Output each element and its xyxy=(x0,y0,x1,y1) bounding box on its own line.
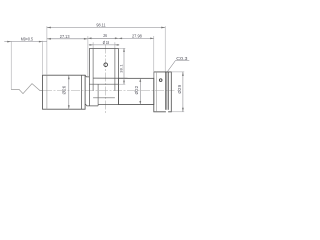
bottom line under block xyxy=(98,104,154,106)
port block screw hole xyxy=(104,63,108,67)
dimension 98.11 xyxy=(46,26,48,75)
dimension 38.1 block height xyxy=(119,47,125,49)
port block bore right xyxy=(114,48,116,90)
dimension 27.13 xyxy=(47,38,88,40)
flange groove line 1 xyxy=(165,72,167,110)
flange groove line 2 xyxy=(167,72,169,110)
port block outer left xyxy=(88,48,90,106)
main barrel body xyxy=(43,75,86,109)
svg-text:26: 26 xyxy=(103,33,107,38)
flange screw hole xyxy=(159,79,162,82)
svg-text:38.1: 38.1 xyxy=(119,64,124,73)
dimension Ø18 xyxy=(89,44,120,46)
flange xyxy=(154,72,172,112)
centerline horizontal xyxy=(43,89,175,91)
dimension 26 xyxy=(88,37,119,39)
svg-text:Ø22: Ø22 xyxy=(134,85,139,94)
port block shoulder line xyxy=(89,83,118,85)
barrel cap line xyxy=(46,75,48,109)
dimension Ø22 right cylinder xyxy=(139,78,141,104)
flange ring line xyxy=(156,72,158,112)
port block bore left xyxy=(92,48,94,90)
svg-text:27.13: 27.13 xyxy=(60,34,70,39)
svg-text:Ø29: Ø29 xyxy=(177,84,182,93)
port block top xyxy=(89,47,118,49)
dimension 27.98 xyxy=(119,37,154,39)
joint line xyxy=(97,84,99,106)
svg-text:27.98: 27.98 xyxy=(132,33,142,38)
leader C0.3 chamfer xyxy=(167,61,189,72)
right cylinder xyxy=(119,78,154,104)
dimension Ø26 barrel xyxy=(68,75,70,109)
svg-text:M9×0.5: M9×0.5 xyxy=(21,36,34,41)
svg-text:C0.3: C0.3 xyxy=(176,56,188,61)
svg-text:Ø26: Ø26 xyxy=(61,85,66,94)
dimension M9x0.5 thread xyxy=(4,41,47,43)
mid section top chamfer xyxy=(85,75,89,77)
centerline vertical of port block xyxy=(105,45,107,115)
svg-text:Ø 18: Ø 18 xyxy=(103,40,110,45)
cylinder top line through bore xyxy=(93,77,154,79)
svg-text:98.11: 98.11 xyxy=(96,22,106,27)
dimension Ø29 flange xyxy=(171,71,184,73)
cable break zigzag xyxy=(11,84,43,94)
mid section bottom chamfer xyxy=(85,104,98,106)
barrel end ring line xyxy=(81,75,83,109)
bore bottom line xyxy=(93,97,115,99)
port block outer right xyxy=(118,48,120,104)
